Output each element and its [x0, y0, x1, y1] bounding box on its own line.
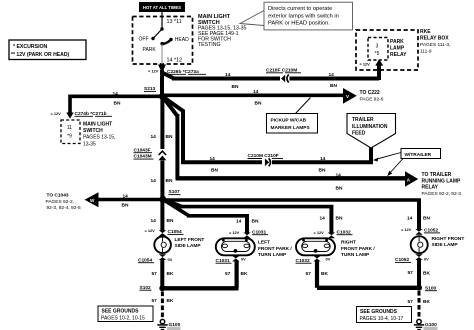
svg-text:PARK: PARK: [143, 47, 157, 53]
wire: S213 right to C222 arrow: [162, 94, 344, 98]
svg-text:14: 14: [151, 134, 157, 140]
svg-text:Directs current to operate: Directs current to operate: [268, 6, 332, 12]
trailer illumination feed banner: [347, 114, 396, 149]
OFF contact node: [151, 37, 154, 40]
right front side lamp title: [432, 236, 465, 248]
svg-text:14: 14: [123, 193, 129, 199]
wire: dashed ground lead to G100 left: [161, 292, 164, 320]
hot-at-all-times power label box: [139, 2, 185, 12]
svg-text:0V: 0V: [424, 257, 429, 262]
wire: ground bus C1031 to S102: [162, 286, 238, 290]
wire: vertical up to trailer illumination feed banner: [369, 146, 373, 164]
connector label C274b *C271b: [75, 111, 113, 117]
svg-text:14: 14: [320, 156, 326, 162]
svg-text:RUNNING LAMP: RUNNING LAMP: [422, 178, 462, 184]
svg-text:PARK or HEAD position.: PARK or HEAD position.: [268, 21, 330, 27]
wire: S213 down to S107 main vertical: [160, 96, 164, 199]
wire: horizontal 3 to C1031: [187, 214, 249, 218]
svg-text:W/TRAILER: W/TRAILER: [405, 152, 432, 158]
left front park/turn lamp C1031: [216, 238, 255, 255]
RKE relay box title: [420, 29, 450, 55]
connector label C226b *C273a: [167, 69, 206, 75]
wire: horizontal feed to park lamp relay: [172, 77, 379, 81]
svg-text:ILLUMINATION: ILLUMINATION: [352, 124, 388, 130]
left front park/turn lamp title: [258, 240, 292, 259]
to trailer running lamp relay text: [422, 172, 462, 197]
excursion note box: [9, 40, 86, 60]
svg-text:BN: BN: [166, 178, 173, 184]
splice S100 label: [425, 285, 437, 291]
park lamp relay inner dashed box: [368, 38, 388, 61]
svg-text:LAMP: LAMP: [390, 46, 405, 52]
svg-text:= 12V: = 12V: [148, 68, 159, 73]
wire: S107 left to C1043 arrow: [97, 198, 163, 202]
svg-text:57: 57: [408, 299, 414, 305]
svg-text:BK: BK: [241, 271, 248, 277]
right front park/turn lamp title: [341, 240, 375, 259]
wire: S213 diagonal 2: [162, 96, 177, 116]
svg-text:RELAY BOX: RELAY BOX: [420, 36, 449, 42]
svg-text:14: 14: [151, 178, 157, 184]
splice S102 label: [140, 285, 152, 291]
left front side lamp title: [175, 237, 205, 249]
wire: corner down to C274b: [68, 95, 72, 114]
svg-text:PICKUP W/CAB: PICKUP W/CAB: [271, 117, 307, 123]
svg-text:BN: BN: [336, 185, 343, 191]
wire: C1054 ground drop to S102: [160, 259, 164, 288]
svg-text:BN: BN: [122, 203, 129, 209]
connector label C1054 top: [168, 229, 184, 235]
svg-text:RIGHT FRONT: RIGHT FRONT: [432, 236, 465, 242]
svg-text:BK: BK: [423, 299, 430, 305]
svg-text:HOT AT ALL TIMES: HOT AT ALL TIMES: [143, 5, 181, 10]
junction S100: [416, 285, 422, 291]
svg-text:* EXCURSION: * EXCURSION: [13, 44, 48, 50]
svg-text:BK: BK: [321, 271, 328, 277]
svg-text:57: 57: [152, 271, 158, 277]
svg-text:TO TRAILER: TO TRAILER: [422, 172, 452, 178]
connector symbol C1031 top (hourglass): [243, 233, 250, 239]
connector label C1032 bottom: [296, 258, 312, 264]
connector symbol C1032 bottom (hourglass): [313, 256, 320, 262]
svg-text:BK: BK: [167, 271, 174, 277]
wire: vertical to trailer relay wire: [175, 114, 179, 178]
svg-text:BN: BN: [255, 100, 262, 106]
to C222 arrow: [343, 88, 357, 104]
see grounds note box right: [357, 307, 412, 323]
wire: S107 horizontal 1 to right side lamp: [163, 198, 421, 202]
svg-text:TRAILER: TRAILER: [352, 117, 374, 123]
connector symbol C210F/C210M inline: [280, 74, 290, 84]
connector symbol C1054 bottom (hourglass): [159, 254, 166, 260]
wire: branch diagonal to park lamp relay feed: [162, 73, 174, 79]
svg-text:57: 57: [306, 271, 312, 277]
switch wiper arc PARK-HEAD: [162, 40, 171, 45]
svg-text:SEE GROUNDS: SEE GROUNDS: [360, 309, 398, 315]
wire: drop to C1054 left front side lamp: [160, 199, 164, 231]
wire: horizontal C210M C210F to trailer feed: [181, 160, 373, 164]
svg-text:PAGES 92-2, 92-3: PAGES 92-2, 92-3: [422, 191, 462, 197]
splice S213 label: [144, 86, 156, 92]
to C1043 text: [46, 193, 81, 212]
w/trailer note box: [401, 149, 441, 159]
svg-text:PAGES 92-2,: PAGES 92-2,: [46, 199, 74, 205]
callout pointer lines: [240, 11, 264, 26]
wire: ground bus C1032 to S100: [317, 286, 419, 290]
svg-text:14: 14: [113, 91, 119, 97]
svg-text:*5: *5: [375, 51, 380, 57]
svg-text:exterior lamps with switch in: exterior lamps with switch in: [268, 13, 339, 19]
connector label C1031 top: [252, 229, 268, 235]
svg-text:13-35: 13-35: [83, 141, 96, 147]
svg-text:3: 3: [376, 44, 379, 50]
svg-text:TURN LAMP: TURN LAMP: [341, 252, 370, 258]
svg-text:FEED: FEED: [352, 131, 366, 137]
junction S102: [159, 285, 165, 291]
svg-text:TURN LAMP: TURN LAMP: [258, 252, 287, 258]
svg-text:** 12V (PARK OR HEAD): ** 12V (PARK OR HEAD): [11, 52, 70, 58]
relay box outer dashed (RKE relay box): [356, 30, 418, 70]
svg-text:RELAY: RELAY: [422, 185, 439, 191]
svg-text:MARKER LAMPS: MARKER LAMPS: [271, 125, 311, 131]
wire: vertical to C210M wire: [181, 110, 185, 163]
connector label C210F C210M: [266, 67, 301, 73]
svg-text:TESTING: TESTING: [198, 42, 220, 48]
svg-text:= 12V: = 12V: [145, 228, 156, 233]
main light switch dashed box: [133, 17, 193, 65]
connector arrow into relay: [375, 59, 383, 65]
connector symbol C210M/C210F inline: [262, 157, 272, 167]
connector label C1043F / C1043M: [134, 147, 154, 159]
connector symbol C1043F/C1043M inline: [157, 149, 167, 161]
connector C274b arrow: [66, 113, 73, 119]
svg-text:*9: *9: [67, 134, 72, 140]
wire: C1052 ground drop to S100: [417, 259, 421, 288]
svg-text:0V: 0V: [168, 257, 173, 262]
svg-text:= 12V: = 12V: [401, 227, 412, 232]
svg-text:RIGHT: RIGHT: [341, 240, 356, 246]
pointer from pickup box to wire: [296, 98, 311, 114]
svg-text:11: 11: [67, 125, 72, 131]
svg-text:BN: BN: [319, 168, 326, 174]
svg-text:SEE GROUNDS: SEE GROUNDS: [102, 309, 140, 315]
G100 label right with highlight: [424, 322, 438, 330]
connector symbol C1052 top (hourglass): [415, 229, 422, 235]
park lamp relay title: [390, 39, 407, 58]
svg-text:SWITCH: SWITCH: [83, 128, 103, 134]
wire: horizontal to trailer running lamp relay arrow: [176, 176, 407, 180]
connector label C1032 top: [337, 229, 353, 235]
main light switch title text: [198, 14, 246, 48]
ground G100 right: [414, 319, 424, 329]
svg-text:LEFT: LEFT: [258, 240, 270, 246]
connector symbol C1031 bottom (hourglass): [232, 256, 239, 262]
wire: C226b down to S213: [160, 70, 164, 97]
svg-text:BN: BN: [166, 134, 173, 140]
svg-text:14: 14: [151, 218, 157, 224]
note callout box: directs current: [264, 2, 353, 30]
wire: power feed into main light switch: [161, 12, 163, 29]
to trailer running lamp relay arrow A: [405, 171, 418, 186]
svg-text:= 12V: = 12V: [314, 230, 325, 235]
wire: dashed ground lead to G100 right: [418, 291, 421, 319]
svg-text:= 12V: = 12V: [360, 62, 371, 67]
switch pivot node: [160, 27, 163, 30]
switch blade to OFF contact: [153, 29, 162, 39]
svg-text:OFF: OFF: [139, 37, 149, 43]
svg-text:= 12V: = 12V: [51, 111, 62, 116]
wire: S107 diagonal 2: [163, 199, 182, 206]
svg-text:G100: G100: [425, 322, 437, 328]
svg-text:PAGE 92-6: PAGE 92-6: [360, 96, 384, 102]
svg-text:57: 57: [225, 271, 231, 277]
wire: drop to C1032 right front park lamp: [329, 205, 333, 233]
svg-text:LEFT FRONT: LEFT FRONT: [175, 237, 205, 243]
svg-text:14: 14: [236, 218, 242, 224]
wire: switch output down: [161, 44, 163, 64]
svg-text:FRONT PARK /: FRONT PARK /: [341, 246, 375, 252]
svg-text:MAIN LIGHT: MAIN LIGHT: [83, 121, 112, 127]
svg-text:BN: BN: [167, 218, 174, 224]
pickup w/cab marker lamps note box: [267, 114, 318, 134]
svg-text:BN: BN: [252, 218, 259, 224]
svg-text:BN: BN: [232, 84, 239, 90]
svg-text:14 *12: 14 *12: [167, 58, 183, 64]
svg-text:14: 14: [320, 215, 326, 221]
svg-text:14: 14: [329, 72, 335, 78]
svg-text:PAGES 10-2, 10-15: PAGES 10-2, 10-15: [101, 315, 145, 321]
svg-text:SIDE LAMP: SIDE LAMP: [432, 242, 459, 248]
wire: S107 diagonal 3: [163, 199, 189, 216]
connector label C1052 bottom: [395, 257, 411, 263]
svg-text:BN: BN: [336, 215, 343, 221]
svg-text:BK: BK: [423, 271, 430, 277]
svg-text:HEAD: HEAD: [175, 37, 189, 43]
wire: S213 diagonal 1: [162, 96, 183, 111]
svg-text:PAGES 13-15,: PAGES 13-15,: [83, 135, 115, 141]
wire: S213 left to C274b: [70, 95, 163, 99]
junction S213: [159, 93, 166, 100]
svg-text:14: 14: [407, 216, 413, 222]
connector symbol C1032 top (hourglass): [328, 233, 335, 239]
svg-text:PAGES 10-4, 10-17: PAGES 10-4, 10-17: [360, 316, 404, 322]
svg-text:G100: G100: [169, 322, 181, 328]
connector label C1052 top: [424, 228, 440, 234]
svg-text:SIDE LAMP: SIDE LAMP: [175, 243, 202, 249]
G100 label left with highlight: [167, 322, 181, 330]
to C1043 arrow: [85, 192, 99, 207]
svg-text:14: 14: [225, 72, 231, 78]
svg-text:14: 14: [210, 156, 216, 162]
pointer from w/trailer to trailer feed wire: [373, 153, 401, 162]
right front side lamp C1052: [411, 236, 428, 253]
svg-text:W: W: [90, 198, 95, 203]
svg-text:RKE: RKE: [420, 29, 431, 35]
to C222 text: [360, 90, 384, 102]
svg-text:TO C1043: TO C1043: [47, 193, 69, 199]
main light switch (left) title: [83, 121, 115, 147]
ground G100 left: [157, 319, 167, 329]
connector C226b *C273a arrow: [158, 65, 166, 74]
svg-text:PAGES 111-3,: PAGES 111-3,: [420, 42, 450, 48]
right front park/turn lamp C1032: [296, 238, 335, 255]
wire: vertical up into park lamp relay: [377, 65, 381, 80]
svg-text:14: 14: [253, 89, 259, 95]
connector label C210M C210F: [248, 153, 284, 159]
svg-text:13 *11: 13 *11: [167, 19, 182, 25]
connector symbol C1052 bottom (hourglass): [415, 254, 422, 260]
svg-text:111-9: 111-9: [420, 49, 432, 55]
wire: drop to C1052 right front side lamp: [417, 199, 421, 230]
svg-text:57: 57: [152, 298, 158, 304]
wire: C1031 ground drop: [235, 261, 239, 289]
connector label C1031 bottom: [216, 258, 232, 264]
connector label C1054 bottom: [138, 257, 154, 263]
see grounds note box left: [98, 306, 153, 322]
svg-text:BN: BN: [114, 101, 121, 107]
svg-text:FRONT PARK /: FRONT PARK /: [258, 246, 292, 252]
svg-text:= 12V: = 12V: [229, 230, 240, 235]
svg-text:92-3, 92-4, 92-5: 92-3, 92-4, 92-5: [47, 205, 81, 211]
svg-text:BN: BN: [330, 83, 337, 89]
svg-text:BK: BK: [167, 298, 174, 304]
wire: drop to C1031 left front park lamp: [245, 214, 249, 233]
splice S107 label: [169, 189, 181, 195]
svg-text:BN: BN: [211, 168, 218, 174]
svg-text:PARK: PARK: [390, 39, 404, 45]
connector symbol C1054 top (hourglass): [159, 230, 166, 236]
svg-text:0V: 0V: [326, 256, 331, 261]
svg-text:14: 14: [336, 172, 342, 178]
svg-text:0V: 0V: [241, 256, 246, 261]
HEAD contact node: [169, 38, 172, 41]
PARK contact node: [160, 42, 164, 46]
wire: horizontal 2 to C1032: [180, 205, 333, 209]
junction S107: [159, 196, 166, 203]
pointer from w/trailer to trailer relay wire: [387, 159, 403, 177]
wire: C1032 ground drop: [315, 261, 319, 288]
svg-text:57: 57: [408, 270, 414, 276]
svg-text:RELAY: RELAY: [390, 52, 407, 58]
left front side lamp C1054: [154, 237, 171, 254]
svg-text:TO C222: TO C222: [360, 90, 380, 96]
main light switch small dashed box: [61, 120, 80, 144]
svg-text:BN: BN: [423, 216, 430, 222]
